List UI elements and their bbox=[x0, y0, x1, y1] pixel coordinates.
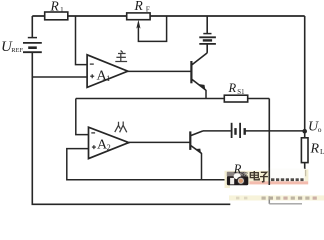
wire drop x=269.3 bbox=[268, 99, 270, 168]
battery B1 bbox=[199, 34, 216, 44]
wire right bus x=304.7 bbox=[304, 16, 306, 138]
wire top bus y=16 bbox=[32, 15, 304, 17]
wire B1 drop from top bus bbox=[206, 16, 208, 34]
svg-text:R: R bbox=[310, 142, 320, 157]
wire sense line y=98.5 bbox=[76, 98, 225, 100]
svg-text:REF: REF bbox=[11, 47, 23, 54]
watermark glyph dian bbox=[250, 171, 259, 180]
resistor RL bbox=[301, 138, 324, 163]
wire ghost RL lower bbox=[305, 170, 307, 176]
watermark faint lower text row bbox=[236, 197, 317, 200]
resistor RS1 bbox=[224, 81, 247, 102]
label master (zhu) bbox=[115, 51, 127, 62]
wire T2 collector to B2 bbox=[203, 130, 231, 132]
watermark camera icon bbox=[227, 172, 248, 186]
wire A2 inverting feed bbox=[76, 99, 89, 135]
wire visible through watermark x=269.3 bbox=[268, 168, 270, 186]
wire left rail x=32.3 lower bbox=[31, 52, 33, 204]
watermark background blocks bbox=[225, 169, 324, 204]
label slave (cong) bbox=[115, 122, 127, 133]
resistor R1 bbox=[45, 0, 68, 20]
node Uo junction dot bbox=[302, 129, 307, 134]
battery B2 bbox=[232, 123, 245, 138]
wire RS1 right to drop bbox=[248, 98, 270, 100]
svg-text:S1: S1 bbox=[237, 89, 244, 96]
transistor T1 bbox=[191, 53, 207, 99]
svg-text:L: L bbox=[320, 147, 324, 156]
wire ghost bottom right bbox=[269, 196, 302, 204]
watermark small dark text row bbox=[271, 178, 304, 181]
svg-text:R: R bbox=[134, 0, 144, 13]
svg-text:S2: S2 bbox=[241, 171, 248, 178]
svg-text:1: 1 bbox=[106, 74, 110, 83]
op-amp A1 bbox=[87, 55, 128, 88]
wire left rail x=32.3 upper bbox=[31, 16, 33, 38]
transistor T2 bbox=[190, 131, 203, 180]
wire B1 to T1 collector bbox=[206, 44, 208, 53]
wire A2 plus loop bbox=[67, 149, 227, 180]
wire RL bottom stub bbox=[304, 163, 306, 170]
wire non-inverting input A1 bbox=[32, 76, 87, 78]
svg-text:F: F bbox=[146, 5, 150, 14]
op-amp A2 bbox=[89, 127, 129, 158]
svg-text:R: R bbox=[50, 0, 60, 14]
svg-text:R: R bbox=[228, 81, 237, 95]
wire bottom bus bbox=[32, 203, 231, 205]
potentiometer RF bbox=[127, 0, 167, 41]
watermark glyph zi bbox=[260, 172, 268, 182]
svg-text:1: 1 bbox=[60, 5, 64, 14]
battery UREF bbox=[23, 38, 42, 53]
wire inverting input drop A1 bbox=[76, 16, 88, 65]
wire A1 output to T1 base bbox=[128, 70, 191, 72]
svg-text:o: o bbox=[318, 125, 322, 134]
wire A2 output to T2 base bbox=[129, 141, 190, 143]
wire B2 to Uo node bbox=[245, 130, 305, 132]
svg-text:2: 2 bbox=[107, 143, 111, 152]
